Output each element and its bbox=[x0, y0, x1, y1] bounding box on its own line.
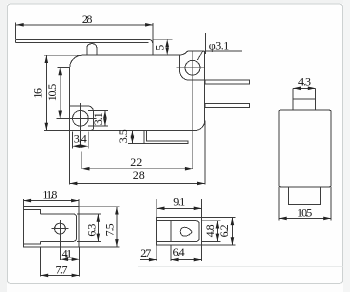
clip top step bbox=[157, 220, 171, 222]
svg-text:6.2: 6.2 bbox=[217, 224, 231, 237]
clip slot bbox=[171, 221, 199, 242]
svg-text:5: 5 bbox=[153, 45, 167, 51]
page margins tint bbox=[0, 0, 7, 292]
svg-text:2.7: 2.7 bbox=[140, 246, 151, 260]
terminal pin 1 bbox=[205, 80, 250, 84]
svg-text:10.5: 10.5 bbox=[297, 205, 312, 219]
extension line 28-top left bbox=[15, 23, 17, 40]
dimension 3.4 extension lines bbox=[71, 132, 73, 149]
mounting hole bottom-left bbox=[73, 111, 89, 127]
clip step vertical bbox=[170, 221, 172, 242]
bracket outline bbox=[24, 207, 79, 247]
dimension 6.2 bbox=[231, 217, 233, 245]
svg-text:3.4: 3.4 bbox=[74, 132, 87, 146]
dimension 4.8 bbox=[216, 221, 218, 242]
svg-text:7.7: 7.7 bbox=[56, 262, 68, 276]
dimension 3.5 bbox=[131, 131, 133, 144]
svg-text:7.5: 7.5 bbox=[103, 223, 117, 236]
svg-text:28: 28 bbox=[82, 12, 93, 26]
dimension 7.5 extension lines bbox=[79, 206, 119, 208]
svg-text:11.8: 11.8 bbox=[42, 187, 57, 201]
dimension 10.5 extension lines bbox=[278, 187, 280, 221]
dimension 22 bbox=[82, 168, 193, 170]
dimension 28 bottom bbox=[70, 182, 205, 184]
extension line 28-top right / lever pivot edge bbox=[152, 23, 154, 55]
dimension 4.1 bbox=[78, 247, 80, 276]
dimension 11.8 bbox=[22, 199, 24, 207]
svg-text:3.5: 3.5 bbox=[116, 129, 130, 143]
boss around bottom-left hole bbox=[70, 106, 94, 130]
svg-text:16: 16 bbox=[31, 88, 45, 99]
dimension 28 bottom extension lines bbox=[69, 131, 71, 185]
dimension 10.5 bbox=[59, 68, 61, 119]
dimension 3.1 bbox=[104, 111, 106, 127]
clip outline bbox=[157, 217, 202, 245]
dimension 9.1 bbox=[156, 199, 158, 217]
faint rule line bbox=[138, 266, 343, 268]
svg-text:6.3: 6.3 bbox=[84, 224, 98, 237]
bracket bottom step bbox=[24, 241, 41, 244]
bottom base block bbox=[289, 187, 321, 205]
clip bottom step bbox=[157, 240, 171, 242]
dimension 28 (lever length) bbox=[16, 24, 153, 26]
dimension 4.8 extension lines bbox=[202, 220, 221, 222]
svg-text:4.3: 4.3 bbox=[298, 75, 311, 89]
boss around top-right hole bbox=[180, 55, 205, 80]
dimension 6.4 bbox=[170, 245, 172, 261]
mounting hole top-right bbox=[185, 60, 200, 75]
dimension 6.2 extension lines bbox=[202, 216, 236, 218]
svg-text:4.1: 4.1 bbox=[62, 246, 73, 260]
svg-text:9.1: 9.1 bbox=[173, 195, 185, 209]
extension line 10.5 top bbox=[58, 67, 71, 69]
dimension 10.5 side bbox=[279, 217, 331, 219]
label phi3.1 leader bbox=[205, 33, 207, 54]
dimension 7.5 bbox=[116, 207, 118, 247]
dimension 3.4 bbox=[72, 145, 88, 147]
dimension 4.3 bbox=[293, 87, 315, 89]
dimension 6.3 extension lines bbox=[77, 213, 101, 215]
svg-text:6.4: 6.4 bbox=[173, 245, 185, 259]
side body bbox=[279, 110, 331, 187]
extension lines 16 bbox=[44, 54, 82, 56]
svg-text:22: 22 bbox=[130, 155, 142, 169]
dimension 16 bbox=[45, 55, 47, 130]
switch body outline bbox=[70, 51, 205, 131]
svg-text:28: 28 bbox=[133, 168, 145, 182]
plunger bump bbox=[87, 44, 97, 56]
svg-text:3.1: 3.1 bbox=[91, 112, 105, 125]
dimension 5 extension line bbox=[153, 38, 173, 40]
bracket slot bbox=[41, 214, 77, 242]
dimension 6.3 bbox=[97, 214, 99, 242]
svg-text:φ3.1: φ3.1 bbox=[209, 39, 230, 53]
dimension 2.7 bbox=[156, 245, 158, 261]
clip teardrop hole bbox=[180, 227, 192, 236]
terminal pin 2 bbox=[205, 104, 250, 108]
crosshair bottom-left hole bbox=[56, 117, 96, 119]
svg-text:10.5: 10.5 bbox=[45, 84, 59, 102]
bracket top step bbox=[24, 209, 41, 214]
plunger side view bbox=[292, 89, 294, 111]
bracket hole bbox=[55, 223, 66, 234]
dimension 3.1 extension lines bbox=[88, 110, 108, 112]
dimension 5 bbox=[166, 39, 168, 55]
bracket hole crosshair bbox=[51, 228, 68, 230]
lever arm bbox=[16, 39, 153, 55]
bottom bent terminal bbox=[144, 131, 188, 144]
svg-text:4.8: 4.8 bbox=[203, 224, 217, 237]
dimension 7.7 bbox=[39, 247, 41, 276]
crosshair top-right hole bbox=[176, 67, 204, 69]
